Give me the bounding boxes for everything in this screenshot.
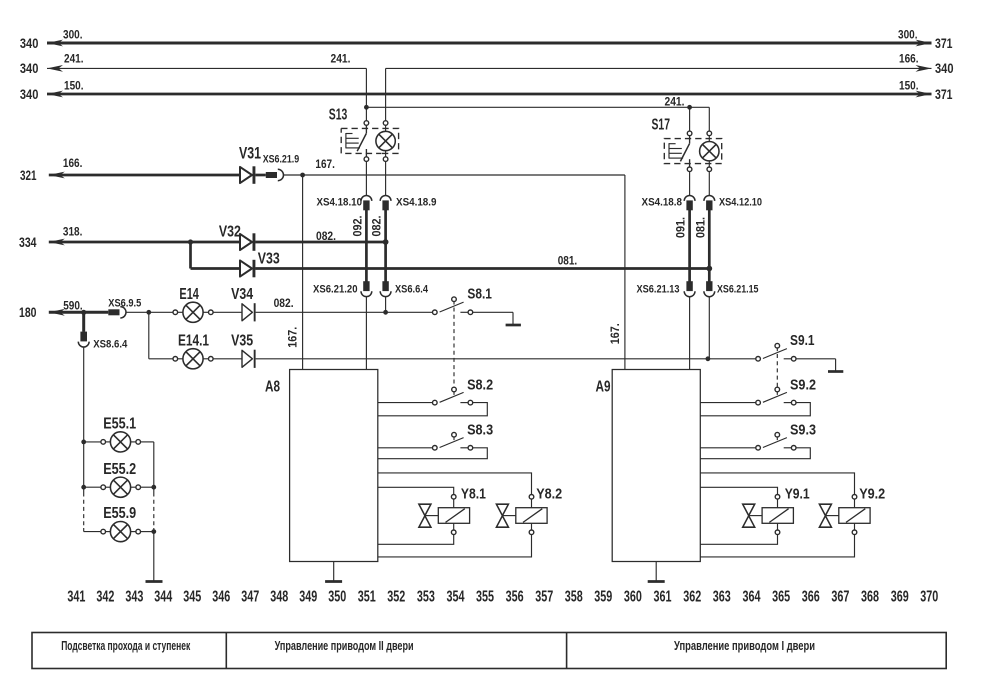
connector XS4.18.9 bbox=[380, 196, 391, 211]
svg-text:XS4.18.9: XS4.18.9 bbox=[396, 196, 437, 208]
wire 092 thick bbox=[365, 210, 368, 282]
lamp E14.1 bbox=[173, 349, 242, 369]
switch S8.1 bbox=[433, 297, 514, 325]
svg-text:S8.1: S8.1 bbox=[467, 285, 492, 302]
svg-text:348: 348 bbox=[270, 588, 288, 605]
connector XS8.6.4 bbox=[78, 332, 89, 442]
connector XS6.21.15 bbox=[704, 281, 715, 296]
svg-text:A8: A8 bbox=[265, 379, 280, 396]
connector XS4.12.10 bbox=[704, 195, 715, 210]
svg-text:360: 360 bbox=[624, 588, 642, 605]
wire Y9.1 return to A9 bbox=[700, 535, 777, 545]
connector XS6.21.13 bbox=[684, 281, 695, 296]
svg-text:S9.1: S9.1 bbox=[790, 332, 815, 349]
svg-text:E55.9: E55.9 bbox=[103, 505, 136, 522]
svg-text:S8.3: S8.3 bbox=[467, 422, 493, 439]
wire left rail dashed bbox=[83, 493, 85, 529]
svg-text:E14: E14 bbox=[179, 286, 199, 303]
svg-text:E14.1: E14.1 bbox=[178, 333, 209, 350]
switch S8.3 bbox=[433, 432, 473, 450]
junction dot 081 at S17 lamp wire bbox=[706, 266, 712, 272]
S13 pin bottom lamp bbox=[383, 157, 388, 162]
wire right rail to ground bbox=[153, 528, 155, 582]
switch S8.2 bbox=[433, 387, 473, 405]
svg-text:241.: 241. bbox=[64, 51, 84, 65]
svg-text:355: 355 bbox=[476, 588, 494, 605]
svg-text:350: 350 bbox=[328, 588, 346, 605]
svg-text:XS4.12.10: XS4.12.10 bbox=[719, 196, 762, 208]
junction dot right rail E55.9 bbox=[151, 529, 156, 534]
svg-text:Управление приводом I двери: Управление приводом I двери bbox=[674, 639, 815, 653]
junction dot 334/V33 branch bbox=[188, 239, 193, 244]
svg-text:XS6.21.15: XS6.21.15 bbox=[717, 283, 759, 295]
svg-text:371: 371 bbox=[935, 86, 953, 102]
controller A8 box bbox=[290, 370, 378, 562]
svg-text:366: 366 bbox=[802, 588, 820, 605]
S13 dashed box bbox=[341, 128, 398, 153]
ground S9.1 bbox=[828, 370, 843, 373]
svg-text:352: 352 bbox=[387, 588, 405, 605]
svg-text:356: 356 bbox=[506, 588, 524, 605]
switch S9.1 bbox=[756, 343, 836, 371]
svg-text:300.: 300. bbox=[63, 27, 83, 41]
mech link S8.1-S8.2 dashed bbox=[453, 308, 455, 388]
S17 lamp wire to connector bbox=[708, 172, 710, 196]
solenoid valve Y8.2 bbox=[496, 495, 547, 535]
switch S9.3 bbox=[756, 432, 796, 450]
connector XS6.21.9 bbox=[266, 169, 303, 180]
svg-text:590.: 590. bbox=[63, 298, 82, 312]
S17 lamp bbox=[700, 136, 719, 167]
wire A8 to Y8.1 feed bbox=[378, 487, 454, 494]
wire stub to XS8.6.4 bbox=[82, 312, 85, 332]
S17 pin top lamp bbox=[707, 131, 712, 136]
svg-text:Y8.2: Y8.2 bbox=[536, 485, 562, 502]
svg-text:321: 321 bbox=[20, 167, 37, 183]
svg-text:354: 354 bbox=[447, 588, 465, 605]
S17 pin top switch bbox=[687, 131, 692, 136]
wire Y9.2 return to A9 bbox=[700, 535, 854, 557]
junction dot E14 row / XS6.6.4 wire bbox=[383, 310, 388, 315]
wire bus 241 (row 340-340) bbox=[47, 65, 932, 72]
svg-text:361: 361 bbox=[654, 588, 672, 605]
wire right rail dashed bbox=[153, 493, 155, 529]
connector XS4.18.10 bbox=[361, 196, 372, 211]
wire Y8.1 return to A8 bbox=[378, 535, 454, 545]
svg-text:S8.2: S8.2 bbox=[467, 376, 493, 393]
svg-text:241.: 241. bbox=[665, 94, 685, 108]
svg-text:Y9.2: Y9.2 bbox=[859, 485, 885, 502]
wire A9 to S9.3 bbox=[700, 447, 756, 449]
svg-text:363: 363 bbox=[713, 588, 731, 605]
wire bus 300 (row 340-371) bbox=[47, 40, 932, 47]
svg-text:346: 346 bbox=[212, 588, 230, 605]
svg-text:081.: 081. bbox=[693, 217, 707, 238]
svg-text:XS6.6.4: XS6.6.4 bbox=[395, 283, 429, 295]
controller A9 box bbox=[612, 370, 700, 562]
svg-text:362: 362 bbox=[683, 588, 701, 605]
wire A8 to S8.2 bbox=[378, 402, 433, 404]
diode V34 bbox=[242, 303, 435, 321]
wire left rail to E55.9 bbox=[83, 528, 85, 532]
solenoid valve Y9.1 bbox=[743, 495, 794, 535]
svg-text:167.: 167. bbox=[315, 157, 335, 171]
svg-text:081.: 081. bbox=[558, 254, 578, 268]
S17 dashed box bbox=[664, 139, 721, 164]
svg-text:371: 371 bbox=[935, 35, 953, 51]
svg-text:340: 340 bbox=[20, 35, 39, 51]
ground A9 bbox=[648, 562, 665, 582]
wire bus 180 row (590.) bbox=[49, 309, 109, 316]
svg-text:359: 359 bbox=[594, 588, 612, 605]
wire bus 150 (row 340-371) bbox=[47, 91, 932, 98]
diode V32 bbox=[240, 234, 252, 250]
S13 switch wire to A8 bbox=[365, 297, 367, 370]
diode V33 bbox=[240, 260, 252, 276]
lamp E55.9 bbox=[84, 522, 154, 542]
solenoid valve Y8.1 bbox=[419, 495, 470, 535]
S13 lamp wire to E14 row bbox=[385, 297, 387, 313]
svg-text:150.: 150. bbox=[899, 78, 919, 92]
wire S8.3 return to A8 bbox=[378, 448, 488, 459]
S17 switch wire from 241 branch bbox=[689, 107, 691, 131]
svg-text:345: 345 bbox=[183, 588, 201, 605]
svg-text:E55.1: E55.1 bbox=[103, 416, 136, 433]
svg-text:V35: V35 bbox=[231, 333, 253, 350]
svg-text:S13: S13 bbox=[329, 107, 348, 124]
svg-text:351: 351 bbox=[358, 588, 376, 605]
wire S9.3 return to A9 bbox=[700, 448, 810, 459]
svg-text:318.: 318. bbox=[63, 225, 83, 239]
junction dot node 167 bbox=[300, 173, 305, 178]
wire 167 horizontal to x625 bbox=[303, 174, 625, 176]
wire A9 to Y9.2 feed bbox=[700, 473, 854, 494]
svg-text:357: 357 bbox=[535, 588, 553, 605]
ground E55 rail bbox=[146, 580, 163, 583]
ground S8.1 bbox=[506, 324, 521, 327]
wire bus 334 row (318./082.) bbox=[49, 239, 386, 246]
svg-text:369: 369 bbox=[891, 588, 909, 605]
svg-text:V33: V33 bbox=[258, 251, 280, 268]
svg-text:367: 367 bbox=[831, 588, 849, 605]
S13 pin top switch bbox=[364, 121, 369, 126]
svg-text:S9.3: S9.3 bbox=[790, 422, 816, 439]
S13 lamp wire from 241 bus bbox=[385, 68, 387, 120]
svg-text:334: 334 bbox=[19, 234, 37, 250]
svg-text:342: 342 bbox=[96, 588, 114, 605]
junction dot right rail E55.2 bbox=[151, 485, 156, 490]
S17 lamp wire to E14.1 row bbox=[708, 297, 710, 359]
svg-text:349: 349 bbox=[299, 588, 317, 605]
mech link S9.1-S9.2 dashed bbox=[776, 354, 778, 387]
ground A8 bbox=[325, 562, 342, 582]
svg-text:XS6.9.5: XS6.9.5 bbox=[108, 297, 142, 309]
wire 081 branch from 334 bbox=[191, 242, 710, 269]
svg-text:XS6.21.9: XS6.21.9 bbox=[263, 154, 300, 166]
svg-text:180: 180 bbox=[19, 304, 37, 320]
svg-text:082.: 082. bbox=[370, 216, 384, 237]
svg-text:V34: V34 bbox=[231, 286, 253, 303]
junction dot 334/082 wire bbox=[383, 239, 389, 245]
lamp E14 bbox=[173, 302, 242, 322]
svg-text:092.: 092. bbox=[351, 216, 365, 237]
switch S9.2 bbox=[756, 387, 796, 405]
S13 pin bottom switch bbox=[364, 157, 369, 162]
svg-text:353: 353 bbox=[417, 588, 435, 605]
connector XS6.6.4 bbox=[380, 281, 391, 296]
svg-text:082.: 082. bbox=[316, 229, 336, 243]
svg-text:340: 340 bbox=[935, 60, 954, 76]
wire A8 to Y8.2 feed bbox=[378, 473, 532, 494]
S13 pin top lamp bbox=[383, 121, 388, 126]
wire bus 321 row (166./167.) bbox=[49, 172, 240, 179]
svg-text:XS8.6.4: XS8.6.4 bbox=[93, 338, 128, 350]
svg-text:358: 358 bbox=[565, 588, 583, 605]
wire A9 to Y9.1 feed bbox=[700, 487, 777, 494]
S17 switch wire to A9 bbox=[689, 297, 691, 370]
S13 lamp bbox=[376, 125, 395, 156]
junction dot E14.1 branch bbox=[146, 310, 151, 315]
svg-text:300.: 300. bbox=[898, 27, 918, 41]
lamp E55.2 bbox=[84, 477, 154, 497]
svg-text:340: 340 bbox=[20, 60, 39, 76]
svg-text:Y9.1: Y9.1 bbox=[785, 485, 810, 502]
junction dot E14.1 row / S17 lamp wire bbox=[706, 356, 711, 361]
junction dot at S17 switch wire / 241 branch bbox=[687, 105, 692, 110]
table divider 1 bbox=[225, 633, 227, 669]
svg-text:368: 368 bbox=[861, 588, 879, 605]
diode V35 bbox=[242, 350, 758, 368]
svg-text:167.: 167. bbox=[286, 327, 300, 348]
wire 167 vertical down to A8 bbox=[302, 175, 304, 370]
junction dot left rail E55.2 bbox=[81, 485, 86, 490]
svg-text:364: 364 bbox=[743, 588, 761, 605]
svg-text:341: 341 bbox=[67, 588, 85, 605]
S13 switch wire from 241 bus bbox=[365, 68, 367, 120]
svg-text:Подсветка прохода и ступенек: Подсветка прохода и ступенек bbox=[61, 639, 190, 653]
connector XS6.21.20 bbox=[361, 281, 372, 296]
svg-text:347: 347 bbox=[241, 588, 259, 605]
connector XS6.9.5 bbox=[108, 307, 175, 318]
svg-text:XS6.21.13: XS6.21.13 bbox=[637, 283, 680, 295]
svg-text:V32: V32 bbox=[219, 224, 241, 241]
svg-text:082.: 082. bbox=[274, 296, 294, 310]
svg-text:A9: A9 bbox=[596, 379, 611, 396]
S17 switch wire to connector bbox=[689, 172, 691, 196]
wire A9 to S9.2 bbox=[700, 402, 756, 404]
svg-text:V31: V31 bbox=[239, 144, 261, 163]
junction dot 180/XS8.6.4 branch bbox=[81, 310, 86, 315]
table divider 2 bbox=[566, 633, 568, 669]
wire right rail E55.1-E55.2 bbox=[153, 442, 155, 493]
svg-text:S17: S17 bbox=[652, 117, 671, 134]
S13 switch wire to connector bbox=[365, 161, 367, 196]
S17 lamp wire from 241 branch bbox=[708, 107, 710, 131]
svg-text:Управление приводом II двери: Управление приводом II двери bbox=[275, 639, 414, 653]
S17 pin bottom switch bbox=[687, 167, 692, 172]
svg-text:166.: 166. bbox=[63, 156, 83, 170]
svg-text:167.: 167. bbox=[608, 323, 622, 344]
solenoid valve Y9.2 bbox=[819, 495, 870, 535]
table frame bbox=[32, 633, 946, 669]
wire down to E14.1 row bbox=[149, 312, 176, 359]
wire A8 to S8.3 bbox=[378, 447, 433, 449]
S17 switch blade bbox=[680, 136, 689, 167]
svg-text:S9.2: S9.2 bbox=[790, 376, 816, 393]
svg-text:XS6.21.20: XS6.21.20 bbox=[313, 283, 358, 295]
wire S9.2 return to A9 bbox=[700, 403, 810, 416]
svg-text:343: 343 bbox=[125, 588, 143, 605]
svg-text:XS4.18.8: XS4.18.8 bbox=[642, 196, 683, 208]
svg-text:E55.2: E55.2 bbox=[103, 461, 136, 478]
junction dot left rail E55.1 bbox=[81, 440, 86, 445]
lamp E55.1 bbox=[84, 432, 154, 452]
svg-text:365: 365 bbox=[772, 588, 790, 605]
svg-text:XS4.18.10: XS4.18.10 bbox=[317, 196, 363, 208]
wire 241 branch S13 to S17 bbox=[366, 106, 709, 108]
wire S8.2 return to A8 bbox=[378, 403, 488, 416]
svg-text:370: 370 bbox=[920, 588, 938, 605]
S17 actuator bracket bbox=[669, 143, 683, 158]
wire 167 vertical down to A9 bbox=[624, 175, 626, 370]
connector XS4.18.8 bbox=[684, 195, 695, 210]
wire 091 thick bbox=[688, 210, 691, 282]
svg-text:340: 340 bbox=[20, 86, 39, 102]
svg-text:344: 344 bbox=[154, 588, 172, 605]
svg-text:241.: 241. bbox=[331, 52, 351, 66]
svg-text:Y8.1: Y8.1 bbox=[461, 485, 486, 502]
wire Y8.2 return to A8 bbox=[378, 535, 532, 557]
wire left rail E55.1-E55.2 bbox=[83, 442, 85, 493]
svg-text:091.: 091. bbox=[674, 217, 688, 238]
svg-text:166.: 166. bbox=[899, 51, 919, 65]
junction dot at S13 switch wire / 241 branch bbox=[364, 105, 369, 110]
S13 lamp wire to connector bbox=[385, 161, 387, 196]
wire 082 thick bbox=[384, 210, 387, 282]
wire 081 thick vertical bbox=[708, 210, 711, 282]
svg-text:150.: 150. bbox=[64, 78, 84, 92]
diode V31 bbox=[240, 166, 266, 184]
S17 pin bottom lamp bbox=[707, 167, 712, 172]
S13 actuator bracket bbox=[346, 133, 360, 148]
S13 switch blade bbox=[357, 125, 366, 156]
